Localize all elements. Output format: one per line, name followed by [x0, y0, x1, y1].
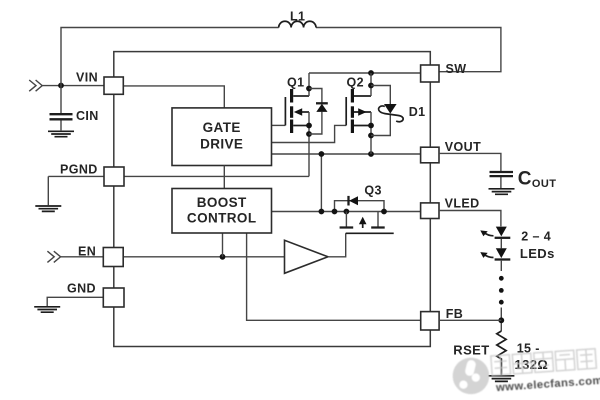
ground (CIN): [48, 131, 74, 136]
svg-text:VLED: VLED: [445, 197, 480, 211]
Q2 channel bars: [351, 89, 354, 103]
svg-text:2 – 4: 2 – 4: [521, 230, 551, 244]
pin box EN: [103, 248, 123, 267]
svg-text:CONTROL: CONTROL: [187, 210, 257, 225]
wire: [500, 239, 502, 248]
capacitor CIN: [50, 114, 73, 119]
Q3 gate bar: [346, 232, 394, 234]
transistor Q3: [332, 184, 394, 234]
wire: VOUT pin to COUT: [439, 153, 501, 188]
wire: VIN input to VIN pin: [42, 85, 104, 87]
node: ellipsis dots (more LEDs): [499, 276, 504, 281]
svg-text:GATE: GATE: [203, 120, 241, 135]
Q3 contact bars: [340, 226, 385, 228]
svg-text:Q1: Q1: [287, 75, 304, 89]
LED DL1: [496, 227, 507, 237]
transistor Q1: [272, 73, 328, 176]
Q2 drain stub: [354, 95, 371, 97]
wire: Q2 gate from GATE DRIVE: [272, 125, 347, 142]
wire: BOOST CONTROL to EN node: [222, 233, 224, 257]
transistor Q2: [272, 73, 374, 154]
Q1 gate electrode: [284, 97, 286, 125]
svg-text:PGND: PGND: [60, 163, 98, 177]
wire: VIN pin to GATE DRIVE: [123, 86, 224, 108]
LED DL2 emission arrow: [484, 254, 494, 257]
svg-text:D1: D1: [409, 105, 426, 119]
Q2 drain vertical: [370, 73, 372, 96]
Q2 gate electrode: [345, 97, 347, 125]
Q1 drain stub: [293, 95, 309, 97]
wire: GATE DRIVE to VOUT rail: [272, 153, 421, 155]
Q3 bypass diode loop: [335, 201, 385, 212]
resistor RSET: [497, 331, 506, 375]
Q3 source/drain stubs: [346, 212, 378, 227]
Q3 diode cathode bar: [347, 196, 349, 206]
Q3 body arrow: [359, 217, 367, 225]
svg-text:SW: SW: [446, 62, 467, 76]
pin box VIN: [104, 77, 123, 94]
wire: GND pin to ground: [47, 297, 103, 306]
comparator U1: [285, 240, 329, 273]
node: EN/BOOST junction: [220, 254, 226, 260]
svg-text:VOUT: VOUT: [445, 140, 481, 154]
svg-text:EN: EN: [78, 244, 96, 258]
Q1 drain vertical: [308, 73, 310, 96]
wire: [500, 261, 502, 271]
D1 schottky curl: [379, 106, 404, 122]
Q2 source vertical down to VOUT rail: [370, 112, 372, 154]
Q2 body stub with arrow (points right): [354, 111, 371, 113]
svg-text:Q2: Q2: [347, 75, 364, 89]
LED DL1 emission arrow: [484, 233, 494, 236]
ground (RSET): [488, 376, 514, 382]
Q1 body diode branch: [309, 89, 322, 135]
Q1 body diode: [316, 102, 328, 104]
BOOST CONTROL block: [172, 189, 272, 234]
node: FB junction: [498, 317, 504, 323]
wire: GATE DRIVE to BOOST CONTROL: [223, 166, 225, 189]
node: Q3 source tap: [332, 209, 338, 215]
svg-text:CIN: CIN: [76, 109, 99, 123]
ground (COUT): [489, 189, 515, 195]
node: VIN junction dot: [58, 83, 64, 89]
node: Q2/D1 taps: [368, 83, 374, 89]
node: VOUT rail taps: [319, 151, 325, 157]
wire: EN pin to comparator: [123, 256, 284, 258]
wire: CIN stub: [60, 86, 62, 131]
wire: SW rail: [309, 72, 421, 74]
svg-text:FB: FB: [446, 307, 463, 321]
svg-text:RSET: RSET: [453, 342, 489, 357]
GATE DRIVE block: [172, 108, 272, 166]
svg-text:Q3: Q3: [364, 184, 381, 198]
svg-text:DRIVE: DRIVE: [200, 137, 243, 152]
wire: Q1 gate from GATE DRIVE: [272, 124, 286, 126]
wire: FB pin to junction: [439, 319, 501, 321]
pin box SW: [421, 65, 439, 82]
capacitor COUT: [490, 172, 514, 176]
pin box PGND: [104, 167, 124, 186]
svg-text:BOOST: BOOST: [197, 195, 247, 210]
input arrow (EN): [47, 251, 60, 262]
pin box VLED: [421, 203, 439, 219]
pin box GND: [103, 288, 124, 307]
node: VLED rail taps: [319, 209, 325, 215]
Q3 diode (points left): [349, 196, 358, 205]
Q1 source vertical: [308, 112, 310, 176]
IC outline: [114, 52, 431, 347]
diode D1 branch wires: [371, 86, 390, 136]
watermark (elecfans): [451, 348, 600, 397]
wire: PGND to Q1 source rail: [48, 175, 309, 177]
Q1 source stub: [293, 125, 309, 127]
node: Q1 diode taps: [306, 86, 312, 92]
inductor L1: [279, 21, 316, 27]
Q1 body stub with arrow: [300, 111, 309, 113]
ground (PGND): [35, 206, 61, 211]
Q2 source stub: [354, 125, 371, 127]
input arrow (VIN source): [29, 80, 42, 91]
wire: VIN up and across top to SW loop: [61, 28, 501, 86]
pin box FB: [421, 312, 439, 330]
wire: LED string to FB node: [500, 308, 502, 332]
pin box VOUT: [421, 147, 439, 163]
wire: VLED pin to LED string: [439, 211, 501, 227]
svg-text:L1: L1: [290, 9, 305, 23]
wire: comparator output to Q3 gate: [328, 233, 346, 256]
svg-text:GND: GND: [67, 282, 96, 296]
LED DL2: [496, 248, 507, 258]
diode D1 (schottky, pointing down): [384, 104, 397, 114]
wire: PGND ground drop: [47, 176, 49, 205]
wire: BOOST CONTROL down to FB: [247, 233, 421, 320]
svg-text:LEDs: LEDs: [520, 246, 555, 261]
Q1 channel bars: [290, 89, 293, 103]
wire: VOUT rail down to VLED rail: [320, 154, 322, 212]
svg-text:VIN: VIN: [76, 71, 98, 85]
wire: EN input: [61, 256, 104, 258]
node: Q2 drain at SW rail: [368, 70, 374, 76]
wire: VLED rail (BOOST CONTROL to VLED pin): [272, 211, 421, 213]
ground (GND): [34, 307, 60, 312]
